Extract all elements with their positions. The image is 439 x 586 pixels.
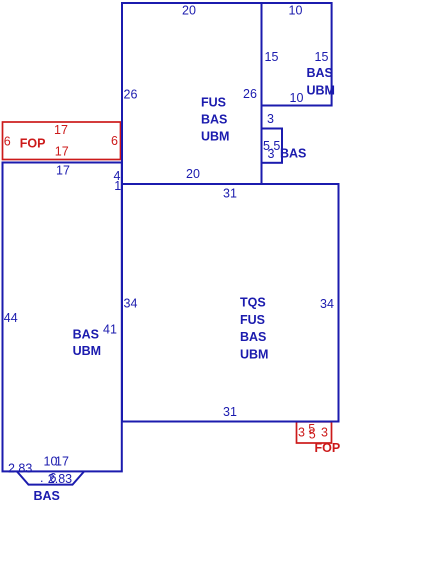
svg-text:2.83: 2.83 (48, 472, 72, 486)
porch FOP outline (left, red) (3, 122, 121, 160)
svg-text:3: 3 (321, 425, 328, 439)
svg-text:20: 20 (186, 167, 200, 181)
svg-text:26: 26 (243, 87, 257, 101)
svg-text:UBM: UBM (201, 130, 229, 144)
svg-text:FOP: FOP (315, 441, 341, 455)
svg-text:20: 20 (182, 4, 196, 18)
svg-text:17: 17 (55, 144, 69, 158)
svg-text:17: 17 (54, 123, 68, 137)
svg-text:10: 10 (289, 4, 303, 18)
svg-text:BAS: BAS (73, 328, 99, 342)
wire: vertical wall x=261 between BAS areas (261, 106, 263, 185)
svg-text:26: 26 (124, 87, 138, 101)
bay window polyline (bottom of left area) (17, 472, 84, 485)
svg-text:FUS: FUS (240, 313, 265, 327)
svg-text:.: . (40, 471, 43, 485)
svg-text:17: 17 (56, 164, 70, 178)
svg-text:10: 10 (290, 91, 304, 105)
svg-text:UBM: UBM (240, 347, 268, 361)
area TQS/FUS/BAS/UBM outline (big bottom-right) (122, 184, 339, 422)
area FUS/BAS/UBM outline (top-middle) (122, 3, 262, 184)
svg-text:UBM: UBM (73, 344, 101, 358)
svg-text:3: 3 (298, 425, 305, 439)
svg-text:17: 17 (55, 455, 69, 469)
svg-text:BAS: BAS (34, 489, 60, 503)
svg-text:TQS: TQS (240, 296, 266, 310)
area BAS/UBM outline (top-right) (262, 3, 332, 106)
svg-text:BAS: BAS (240, 330, 266, 344)
svg-text:1: 1 (114, 179, 121, 193)
svg-text:3: 3 (267, 112, 274, 126)
svg-text:BAS: BAS (307, 66, 333, 80)
area small BAS outline (262, 129, 283, 163)
svg-text:BAS: BAS (201, 113, 227, 127)
porch FOP outline (bottom-right, red) (297, 422, 332, 443)
svg-text:UBM: UBM (307, 84, 335, 98)
svg-text:FOP: FOP (20, 137, 46, 151)
svg-text:31: 31 (223, 187, 237, 201)
svg-text:FUS: FUS (201, 95, 226, 109)
svg-text:6: 6 (4, 135, 11, 149)
svg-text:3: 3 (268, 147, 275, 161)
svg-text:34: 34 (124, 297, 138, 311)
svg-text:15: 15 (265, 50, 279, 64)
svg-text:34: 34 (320, 297, 334, 311)
svg-text:31: 31 (223, 405, 237, 419)
svg-text:15: 15 (315, 50, 329, 64)
svg-text:5: 5 (309, 427, 316, 441)
area BAS/UBM outline (left) (3, 163, 122, 472)
svg-text:2.83: 2.83 (8, 462, 32, 476)
svg-text:41: 41 (103, 322, 117, 336)
svg-text:BAS: BAS (280, 147, 306, 161)
svg-text:44: 44 (4, 311, 18, 325)
svg-text:6: 6 (111, 134, 118, 148)
